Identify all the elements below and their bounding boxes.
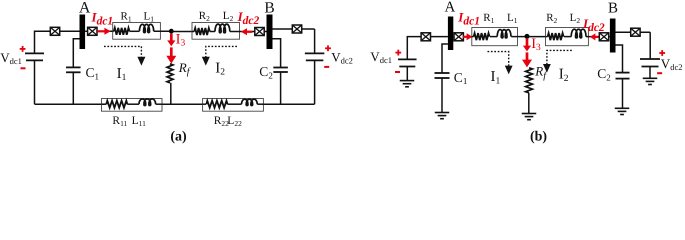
feedthrough symbol right of plate B: [292, 25, 301, 33]
current arrow Idc1 (b): [463, 33, 473, 40]
svg-text:C2: C2: [597, 66, 611, 82]
box around R1 L1 (b): [472, 28, 518, 46]
minus sign Vdc1: [21, 67, 26, 69]
label L11: [132, 115, 147, 128]
wire corner down to Vdc2 (b): [649, 32, 651, 59]
minus sign Vdc1 (b): [395, 71, 400, 73]
capacitor C1 (b): [435, 73, 450, 78]
svg-text:Rf: Rf: [178, 60, 191, 78]
svg-text:C2: C2: [259, 64, 273, 80]
label R2: [199, 10, 210, 23]
current arrow I3 upper (b): [523, 39, 531, 52]
loop current I2 marker: [202, 46, 237, 65]
wire plate B (b) tap to C2: [616, 45, 623, 73]
svg-text:R1: R1: [483, 12, 494, 25]
label C1: [86, 65, 100, 81]
svg-text:A: A: [444, 0, 455, 15]
wire C1 bottom: [72, 72, 74, 104]
label A: [79, 0, 91, 17]
wire Vdc2 (b) to ground: [649, 67, 651, 79]
wire plate A (b) tap to C1: [442, 44, 448, 73]
svg-text:L2: L2: [223, 10, 234, 23]
wire plate A (b) to box: [453, 36, 472, 38]
wire into R1 (b): [472, 36, 474, 38]
label Idc1 (b): [457, 10, 480, 28]
wire plate B (b) to corner: [616, 31, 651, 33]
voltage source Vdc1 (figure a): [25, 53, 44, 60]
loop current I2 marker (b): [543, 50, 572, 72]
wire Rf (b) to ground: [528, 93, 530, 113]
wire C2 (b) to ground: [622, 79, 624, 108]
svg-text:L1: L1: [144, 11, 155, 24]
ground below Rf (b): [522, 114, 537, 120]
resistor R2: [194, 28, 210, 35]
feedthrough symbol left of plate B: [255, 28, 264, 36]
box around R2 L2: [192, 23, 240, 40]
wire R2 to L2 (b): [564, 36, 571, 38]
wire C1 (b) to ground: [441, 78, 443, 112]
label Vdc1 (b): [370, 49, 392, 65]
wire into R2: [192, 31, 194, 33]
label I3 (b): [531, 36, 541, 53]
wire R22 to L22: [228, 103, 242, 105]
svg-text:A: A: [79, 0, 91, 17]
ground below C1 (b): [435, 113, 450, 119]
wire bottom rail left: [35, 103, 105, 105]
wire Vdc1 top to rail: [35, 31, 80, 53]
caption (b): [530, 130, 547, 145]
label L2: [223, 10, 234, 23]
wire C2 bottom: [280, 72, 282, 104]
svg-text:Vdc1: Vdc1: [370, 49, 392, 65]
label Idc2 (b): [582, 16, 605, 34]
wire plate B to corner: [273, 28, 315, 30]
label R1 (b): [483, 12, 494, 25]
coupling plate B (b): [610, 19, 616, 53]
inductor L22: [242, 99, 258, 105]
voltage source Vdc2 (figure b): [640, 59, 660, 67]
feedthrough symbol left of plate A: [50, 27, 59, 35]
svg-text:I1: I1: [491, 69, 501, 86]
voltage source Vdc1 (figure b): [398, 59, 417, 66]
wire L2 to plate B: [230, 31, 267, 33]
wire Vdc2 bottom: [314, 60, 316, 104]
wire node (b) to box R2L2: [527, 36, 546, 38]
capacitor C2: [273, 68, 288, 73]
label I1: [117, 66, 127, 83]
feedthrough symbol left of plate A (b): [421, 33, 430, 41]
feedthrough symbol right of plate A (b): [454, 33, 463, 41]
wire into R2 (b): [546, 36, 548, 38]
loop current I1 marker (b): [488, 52, 513, 75]
inductor L11: [139, 99, 156, 106]
minus sign Vdc2 (b): [657, 72, 662, 74]
svg-text:I2: I2: [559, 67, 569, 84]
wire corner down to Vdc2: [314, 29, 316, 53]
label R1: [121, 11, 132, 24]
label B: [264, 0, 274, 16]
feedthrough symbol right of plate A: [88, 27, 97, 35]
ground below C2 (b): [615, 108, 630, 114]
current arrow Idc1: [97, 28, 111, 35]
svg-text:L22: L22: [227, 115, 242, 128]
svg-text:Idc1: Idc1: [457, 10, 480, 28]
current arrow I3 lower (b): [522, 52, 532, 67]
svg-text:(a): (a): [170, 130, 187, 145]
loop current I1 marker: [104, 46, 145, 65]
box around R1 L1: [113, 23, 161, 40]
plus sign Vdc1 (b): [395, 50, 401, 56]
box around R2 L2 (b): [546, 28, 589, 46]
svg-text:L1: L1: [507, 12, 518, 25]
svg-text:L11: L11: [132, 115, 147, 128]
label L1: [144, 11, 155, 24]
label B (b): [608, 1, 618, 17]
capacitor C1: [66, 67, 81, 72]
wire R1 to L1: [130, 30, 140, 32]
resistor Rf: [167, 64, 173, 83]
svg-text:I3: I3: [531, 36, 541, 53]
feedthrough symbol right of plate B (b): [631, 28, 640, 36]
voltage source Vdc2 (figure a): [305, 53, 325, 60]
label R2 (b): [546, 12, 557, 25]
coupling plate A: [80, 15, 86, 50]
label A (b): [444, 0, 455, 15]
current arrow I3 lower: [166, 47, 176, 63]
resistor R1: [114, 28, 130, 35]
wire plate A to box R1L1: [85, 30, 113, 32]
label R22: [214, 115, 229, 128]
label R11: [112, 115, 127, 128]
wire node to box R2L2: [171, 31, 192, 33]
wire Rf to bottom rail: [170, 83, 172, 104]
svg-text:Idc1: Idc1: [91, 10, 114, 28]
box around R22 L22: [203, 99, 264, 112]
ground below Vdc2 (b): [643, 78, 658, 84]
label I3: [176, 31, 186, 48]
current arrow I3 upper: [167, 34, 175, 47]
wire L2 (b) to plate B: [586, 36, 610, 38]
minus sign Vdc2: [324, 66, 329, 68]
wire R11 to L11: [127, 103, 139, 105]
svg-text:B: B: [608, 1, 618, 17]
svg-text:Vdc2: Vdc2: [331, 50, 353, 66]
svg-text:I2: I2: [215, 60, 225, 77]
wire R2 to L2: [210, 31, 215, 33]
coupling plate A (b): [448, 17, 453, 51]
label C2: [259, 64, 273, 80]
resistor Rf (b): [526, 68, 533, 93]
svg-text:R2: R2: [199, 10, 210, 23]
label Vdc2: [331, 50, 353, 66]
svg-text:(b): (b): [530, 130, 547, 145]
resistor R1 (b): [474, 33, 490, 40]
svg-text:R2: R2: [546, 12, 557, 25]
resistor R2 (b): [548, 33, 564, 40]
label I2: [215, 60, 225, 77]
wire L1 (b) to node: [511, 36, 527, 38]
wire into R22: [203, 103, 206, 105]
svg-text:C1: C1: [86, 65, 100, 81]
wire R1 to L1 (b): [490, 36, 497, 38]
svg-text:I3: I3: [176, 31, 186, 48]
node junction: [169, 29, 174, 34]
label Vdc2 (b): [661, 56, 683, 72]
wire Vdc1 bottom: [34, 60, 36, 104]
caption (a): [170, 130, 187, 145]
inductor L1 (b): [497, 30, 511, 38]
wire into R11: [102, 103, 107, 105]
wire Vdc1 (b) top to rail: [407, 37, 448, 60]
label C1 (b): [454, 70, 468, 86]
box around R11 L11: [102, 99, 163, 112]
coupling plate B: [267, 15, 273, 50]
label Idc1: [91, 10, 114, 28]
label C2 (b): [597, 66, 611, 82]
inductor L2: [215, 24, 230, 33]
wire L11 out: [156, 103, 162, 105]
plus sign Vdc2 (b): [659, 50, 665, 56]
wire L22 out: [257, 103, 263, 105]
svg-text:Vdc2: Vdc2: [661, 56, 683, 72]
svg-text:C1: C1: [454, 70, 468, 86]
wire into R1: [113, 30, 114, 32]
svg-text:Vdc1: Vdc1: [0, 50, 22, 66]
wire plate B tap to C2: [273, 39, 281, 68]
wire bottom rail right: [263, 103, 314, 105]
capacitor C2 (b): [616, 73, 630, 79]
wire L1 to node: [154, 30, 172, 32]
wire bottom rail middle: [162, 103, 203, 105]
label Rf (b): [534, 64, 547, 82]
inductor L2 (b): [571, 29, 586, 38]
resistor R22: [206, 101, 227, 108]
resistor R11: [106, 101, 127, 108]
svg-text:L2: L2: [570, 12, 581, 25]
label I1 (b): [491, 69, 501, 86]
label L22: [227, 115, 242, 128]
current arrow Idc2: [241, 28, 253, 35]
svg-text:Idc2: Idc2: [237, 9, 260, 27]
label Idc2: [237, 9, 260, 27]
current arrow Idc2 (b): [590, 33, 599, 40]
svg-text:B: B: [264, 0, 274, 16]
wire plate A tap to C1: [73, 39, 79, 68]
label Vdc1: [0, 50, 22, 66]
label L2 (b): [570, 12, 581, 25]
plus sign Vdc1: [20, 46, 26, 52]
label I2 (b): [559, 67, 569, 84]
wire Vdc1 (b) to ground: [406, 67, 408, 81]
ground below Vdc1 (b): [400, 81, 415, 87]
plus sign Vdc2: [325, 45, 331, 51]
label Rf: [178, 60, 191, 78]
feedthrough symbol left of plate B (b): [599, 33, 608, 41]
svg-text:R1: R1: [121, 11, 132, 24]
label L1 (b): [507, 12, 518, 25]
svg-text:I1: I1: [117, 66, 127, 83]
svg-text:R11: R11: [112, 115, 127, 128]
inductor L1: [139, 24, 153, 32]
node junction (b): [525, 34, 530, 39]
